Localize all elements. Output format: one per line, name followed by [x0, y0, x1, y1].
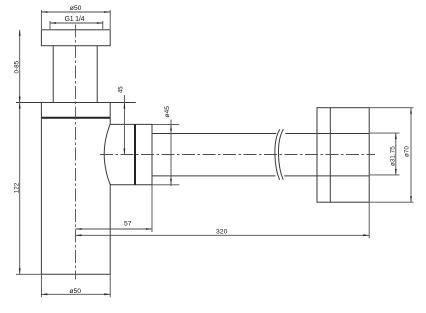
dimension 45 (top to pipe axis) — [123, 95, 125, 155]
dimension phi31.75 (pipe diameter) — [370, 133, 400, 175]
dimension G1 1/4 (thread) — [50, 21, 103, 29]
dimension 57 (axis to nut face) — [76, 185, 153, 232]
top flange of bottle trap inlet — [41, 30, 110, 46]
cup right wall with outlet intersection arc — [104, 103, 110, 275]
svg-text:320: 320 — [216, 229, 228, 236]
dimension phi45 (nut diameter) — [152, 120, 179, 187]
extension line cup bottom to left — [16, 273, 41, 275]
cup top edge line — [16, 102, 136, 104]
wall flange — [317, 108, 369, 203]
svg-text:57: 57 — [124, 220, 132, 227]
vertical centerline of trap — [75, 25, 77, 280]
svg-text:ø45: ø45 — [164, 106, 171, 118]
svg-text:ø50: ø50 — [69, 288, 81, 295]
svg-text:ø50: ø50 — [70, 5, 82, 12]
dimension 122 (cup height) — [19, 103, 21, 275]
cup bold ring line — [41, 117, 110, 119]
svg-text:45: 45 — [118, 86, 124, 93]
outlet boss and compression nut — [110, 124, 152, 184]
cup left wall — [40, 103, 42, 275]
pipe break symbol — [275, 129, 284, 180]
svg-text:0-85: 0-85 — [14, 60, 21, 73]
threaded inlet tube — [53, 46, 97, 103]
horizontal centerline of outlet pipe — [100, 154, 375, 156]
dimension phi70 (flange diameter) — [370, 108, 414, 203]
svg-text:122: 122 — [14, 182, 21, 193]
dimension 0-85 (adjustable height) — [19, 30, 21, 103]
dimension 320 (axis to wall flange) — [76, 202, 370, 238]
svg-text:ø31.75: ø31.75 — [389, 146, 396, 166]
cup bottom edge — [41, 273, 110, 275]
dimension phi50 (cup diameter, bottom) — [41, 274, 110, 297]
dimension phi50 (top flange diameter) — [41, 10, 110, 29]
nut back thick line — [134, 124, 136, 184]
outlet pipe walls — [152, 134, 369, 176]
svg-text:G1 1/4: G1 1/4 — [64, 16, 84, 23]
svg-text:ø70: ø70 — [404, 146, 411, 157]
